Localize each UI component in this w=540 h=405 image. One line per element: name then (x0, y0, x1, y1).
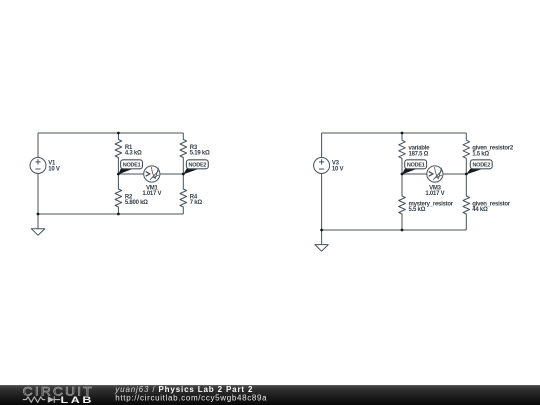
flag pointer NODE1 left (118, 169, 132, 175)
svg-text:5.800 kΩ: 5.800 kΩ (125, 200, 148, 206)
node label box NODE1 right (405, 160, 427, 169)
svg-text:10 V: 10 V (48, 166, 60, 172)
junction dot at right ground (320, 229, 323, 232)
svg-text:1.017 V: 1.017 V (142, 191, 161, 197)
wire: VM1 to NODE2 (160, 173, 184, 175)
junction node NODE1 right (401, 173, 404, 176)
wire: right circuit top rail (322, 132, 467, 134)
resistor R2 (115, 174, 122, 214)
footer bar top highlight (0, 385, 540, 386)
node label box NODE2 right (470, 160, 492, 169)
junction node NODE1 left (117, 173, 120, 176)
junction dot at left ground (37, 213, 40, 216)
junction dot left top (117, 132, 120, 135)
wire: right circuit V3 bottom lead (321, 173, 323, 230)
wire: right circuit left vertical (V3 top lead) (321, 133, 323, 158)
resistor variable (399, 133, 406, 174)
wire: left circuit bottom rail (38, 213, 183, 215)
flag pointer NODE2 right (466, 169, 481, 175)
voltage source V3 (314, 158, 330, 174)
wire: VM3 to right NODE2 (443, 173, 466, 175)
svg-text:4.3 kΩ: 4.3 kΩ (125, 151, 142, 157)
wire: left circuit V1 bottom lead (37, 173, 39, 214)
wire: NODE1 to VM1 (118, 173, 143, 175)
svg-text:187.5 Ω: 187.5 Ω (409, 152, 429, 158)
svg-text:5.19 kΩ: 5.19 kΩ (190, 151, 210, 157)
svg-text:http://circuitlab.com/ccy5wgb4: http://circuitlab.com/ccy5wgb48c89a (115, 393, 267, 402)
resistor mystery_resistor (399, 174, 406, 230)
resistor R1 (115, 133, 122, 174)
resistor R4 (180, 174, 187, 214)
voltmeter VM1 (144, 166, 160, 182)
resistor given_resistor2 (463, 133, 470, 174)
ground (right circuit) (315, 230, 328, 251)
flag pointer NODE2 left (183, 169, 197, 175)
wire: right circuit bottom rail (322, 229, 467, 231)
junction node NODE2 right (465, 173, 468, 176)
resistor given_resistor (463, 174, 470, 230)
svg-text:1.5 kΩ: 1.5 kΩ (472, 152, 489, 158)
voltage source V1 (30, 158, 46, 174)
flag pointer NODE1 right (402, 169, 416, 175)
ground (left circuit) (31, 214, 45, 235)
node label box NODE1 left (121, 160, 143, 169)
wire: right NODE1 to VM3 (402, 173, 427, 175)
wire: left circuit top rail (38, 132, 183, 134)
junction dot left bottom (117, 213, 120, 216)
wire: left circuit left vertical (V1 top lead) (37, 133, 39, 158)
svg-text:10 V: 10 V (332, 166, 344, 172)
svg-text:NODE2: NODE2 (189, 163, 207, 169)
junction dot right bottom (401, 229, 404, 232)
svg-text:NODE2: NODE2 (472, 163, 490, 169)
svg-text:LAB: LAB (61, 394, 95, 405)
voltmeter VM3 (427, 166, 443, 182)
logo resistor zigzag and diode (23, 396, 61, 403)
logo diode triangle (48, 396, 55, 403)
node label box NODE2 left (186, 160, 208, 169)
junction dot right top (401, 132, 404, 135)
svg-text:44 kΩ: 44 kΩ (472, 207, 488, 213)
svg-text:5.5 kΩ: 5.5 kΩ (409, 207, 426, 213)
svg-text:7 kΩ: 7 kΩ (190, 200, 203, 206)
svg-text:NODE1: NODE1 (407, 163, 425, 169)
svg-text:NODE1: NODE1 (123, 163, 141, 169)
resistor R3 (180, 133, 187, 174)
junction node NODE2 left (182, 173, 185, 176)
footer bar (0, 385, 540, 405)
svg-text:1.017 V: 1.017 V (425, 191, 444, 197)
